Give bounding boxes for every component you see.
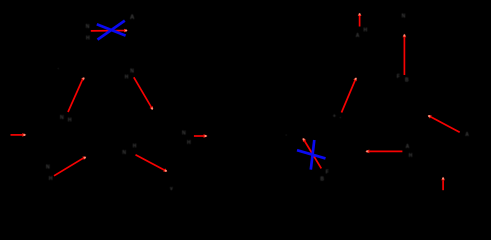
- svg-text:H: H: [133, 144, 137, 150]
- svg-text:N: N: [86, 24, 90, 30]
- A7 short arrow right: [194, 134, 208, 138]
- svg-text:B: B: [320, 177, 324, 183]
- svg-text:N: N: [60, 115, 64, 121]
- svg-text:N: N: [130, 69, 134, 75]
- svg-text:H: H: [125, 74, 129, 80]
- svg-text:A: A: [406, 144, 410, 150]
- svg-text:A: A: [130, 15, 135, 21]
- svg-text:B: B: [405, 77, 409, 83]
- A6 short arrow right: [11, 133, 27, 137]
- svg-text:H: H: [68, 118, 72, 124]
- A9 arrow up: [403, 34, 407, 75]
- svg-text:N: N: [182, 130, 186, 136]
- A2 arrow up-right: [68, 77, 85, 112]
- X1 blue cross stroke a: [97, 24, 126, 35]
- svg-text:A: A: [356, 33, 360, 39]
- X2 blue cross stroke a: [297, 150, 326, 158]
- A1 left-X red arrow: [91, 29, 128, 33]
- A4 arrow up-right: [54, 156, 86, 175]
- svg-text:F: F: [397, 74, 400, 80]
- svg-text:N: N: [46, 164, 50, 170]
- svg-text:H: H: [363, 28, 367, 34]
- svg-text:F: F: [326, 169, 329, 175]
- X1 blue cross stroke b: [98, 21, 125, 40]
- X2 blue cross stroke b: [311, 140, 315, 170]
- A5 arrow down-right: [136, 155, 168, 172]
- A10 arrow up-right: [342, 77, 357, 112]
- svg-text:A: A: [465, 132, 469, 138]
- A13 arrow up-left: [428, 115, 460, 132]
- A12 arrow left: [365, 150, 402, 154]
- svg-text:H: H: [49, 176, 53, 182]
- svg-text:H: H: [187, 140, 191, 146]
- A14 short arrow up: [441, 177, 445, 191]
- svg-text:H: H: [86, 36, 90, 42]
- svg-text:N: N: [122, 150, 126, 156]
- A8 arrow up: [358, 13, 362, 27]
- A11 right-X red arrow: [303, 138, 322, 169]
- svg-text:N: N: [402, 13, 406, 19]
- svg-text:H: H: [409, 153, 413, 159]
- svg-text:v: v: [170, 186, 173, 192]
- A3 arrow down-right: [134, 77, 153, 110]
- svg-text:+: +: [333, 114, 336, 120]
